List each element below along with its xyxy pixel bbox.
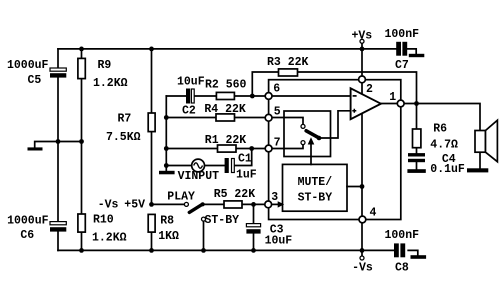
wire R3 feedback branch: [252, 72, 416, 104]
wire C6 column: [57, 142, 59, 251]
junction +5V node: [149, 202, 154, 207]
internal switch contact upper: [301, 124, 305, 128]
svg-text:1000uF: 1000uF: [7, 215, 49, 228]
pin 2: [359, 76, 366, 83]
resistor R3 body: [279, 69, 298, 76]
wire speaker to ground stub: [479, 152, 481, 168]
junction ST-BY rail: [201, 248, 206, 253]
wire C4 to ground stub: [416, 162, 418, 169]
wire +Vs terminal stub: [361, 43, 363, 49]
wire pin 7 to switch contact: [272, 145, 303, 149]
junction +Vs rail: [360, 47, 365, 52]
svg-text:10uF: 10uF: [265, 235, 293, 248]
terminal -Vs: [360, 256, 364, 260]
svg-text:R9: R9: [98, 59, 112, 72]
ground speaker: [467, 168, 488, 172]
op-amp non-inverting mark: [352, 109, 356, 113]
svg-text:1000uF: 1000uF: [7, 59, 49, 72]
svg-text:6: 6: [273, 83, 280, 96]
junction C5 ground: [56, 139, 61, 144]
wire R7 column: [151, 49, 153, 205]
resistor R1 body: [218, 145, 237, 152]
svg-text:5: 5: [274, 106, 281, 119]
wire ST-BY contact to rail: [203, 221, 205, 250]
wire input ground bus: [165, 96, 167, 171]
svg-text:R8: R8: [160, 215, 174, 228]
wire op-amp output to pin 1: [381, 103, 397, 105]
resistor R4 body: [216, 114, 235, 121]
pin 4: [359, 216, 366, 223]
svg-text:1KΩ: 1KΩ: [158, 230, 179, 243]
wire R4 row: [166, 117, 265, 119]
switch PLAY/ST-BY lever: [189, 204, 202, 212]
pin 6: [265, 93, 272, 100]
resistor R5 body: [224, 201, 242, 208]
junction R8 rail: [149, 248, 154, 253]
svg-text:1.2KΩ: 1.2KΩ: [92, 232, 127, 245]
wire C3 branch: [253, 204, 255, 250]
pin 3: [265, 201, 272, 208]
svg-text:C7: C7: [395, 59, 409, 72]
svg-text:C1: C1: [238, 153, 252, 166]
wire pin 4 to rail and -Vs stub: [361, 223, 363, 256]
junction R9 ground: [79, 139, 84, 144]
internal switch pivot dot: [317, 136, 322, 141]
wire mute control arrow stem: [310, 143, 312, 165]
junction R2 pin6 node: [250, 94, 255, 99]
capacitor C5 plates: [50, 68, 66, 78]
wire pin 3 arrow lead: [272, 203, 279, 205]
wire R6 branch: [416, 104, 418, 154]
svg-text:VINPUT: VINPUT: [178, 170, 220, 183]
junction pin4 rail: [360, 248, 365, 253]
svg-text:1: 1: [389, 91, 396, 104]
svg-text:ST-BY: ST-BY: [205, 214, 240, 227]
wire MUTE block to supply line: [347, 186, 362, 188]
svg-text:100nF: 100nF: [385, 28, 420, 41]
junction output feedback: [414, 101, 419, 106]
wire C1 branch: [235, 149, 251, 166]
svg-text:-Vs: -Vs: [98, 199, 119, 212]
ground C4: [407, 169, 425, 173]
svg-text:R10: R10: [93, 214, 114, 227]
capacitor C3 plates: [246, 224, 260, 234]
wire C5 column: [57, 49, 59, 142]
wire pin 2 to pin 4 internal supply: [361, 83, 363, 216]
resistor R2 body: [216, 92, 234, 99]
svg-text:1.2KΩ: 1.2KΩ: [93, 77, 128, 90]
svg-text:100nF: 100nF: [385, 229, 420, 242]
ground C7: [409, 54, 425, 57]
wire C7 to ground: [407, 49, 416, 54]
wire switch lever to R5: [203, 203, 225, 205]
capacitor C6 plates: [50, 222, 66, 232]
svg-text:+5V: +5V: [124, 199, 145, 212]
wire bottom -Vs rail: [58, 249, 394, 251]
svg-text:7.5KΩ: 7.5KΩ: [106, 131, 141, 144]
resistor R6 body: [413, 129, 421, 148]
wire C2 row: [166, 95, 265, 97]
svg-text:1uF: 1uF: [236, 169, 257, 182]
pin 5: [265, 114, 272, 121]
capacitor C8 plates: [394, 243, 405, 257]
junction R9 top: [79, 47, 84, 52]
op-amp U1 triangle: [351, 88, 381, 119]
op-amp inverting mark: [353, 95, 357, 97]
svg-text:C2: C2: [182, 105, 196, 118]
svg-text:C6: C6: [20, 229, 34, 242]
wire +5V node to PLAY contact: [152, 203, 185, 205]
wire R5 to pin 3: [242, 203, 265, 205]
switch ST-BY contact: [202, 217, 206, 221]
signal source VINPUT: [192, 159, 205, 172]
switch lever pivot dot: [201, 202, 205, 206]
IC block outline: [269, 80, 401, 220]
ground mid-left: [28, 147, 43, 150]
wire switch common to op-amp + input: [319, 111, 351, 138]
junction R1 pin7 node: [249, 146, 254, 151]
internal switch box: [284, 111, 331, 157]
svg-text:ST-BY: ST-BY: [298, 191, 333, 204]
wire R1 row: [166, 148, 265, 150]
svg-text:-Vs: -Vs: [352, 262, 373, 275]
wire R9 column: [81, 49, 83, 142]
ground VINPUT: [159, 171, 175, 175]
junction mute supply: [360, 184, 365, 189]
svg-text:R3 22K: R3 22K: [267, 56, 309, 69]
svg-text:R6: R6: [433, 123, 447, 136]
svg-text:MUTE/: MUTE/: [298, 176, 333, 189]
svg-text:4: 4: [370, 207, 377, 220]
svg-text:C5: C5: [28, 74, 42, 87]
svg-text:3: 3: [271, 191, 278, 204]
internal switch contact lower: [301, 141, 305, 145]
switch PLAY contact: [184, 202, 188, 206]
junction R5 C3 node: [251, 202, 256, 207]
resistor R9 body: [78, 58, 85, 78]
MUTE/ST-BY block: [283, 164, 348, 211]
svg-text:R5 22K: R5 22K: [214, 188, 256, 201]
terminal +Vs: [360, 39, 364, 43]
capacitor C1 plates: [225, 158, 235, 173]
capacitor C2 plates: [186, 89, 194, 104]
svg-text:PLAY: PLAY: [167, 191, 195, 204]
svg-text:4.7Ω: 4.7Ω: [430, 139, 458, 152]
wire C8 to ground: [408, 250, 418, 255]
junction bus R1: [164, 146, 169, 151]
pin 1: [397, 100, 404, 107]
junction R10 rail: [79, 248, 84, 253]
wire pin 1 output line: [404, 104, 480, 131]
wire mid ground link: [35, 142, 82, 148]
wire pin 5 to switch contact: [272, 118, 303, 125]
svg-text:10uF: 10uF: [177, 76, 205, 89]
svg-text:R4 22K: R4 22K: [204, 103, 246, 116]
wire +Vs rail to pin 2: [361, 49, 363, 76]
svg-text:0.1uF: 0.1uF: [430, 163, 465, 176]
svg-text:R7: R7: [118, 113, 132, 126]
wire R8 column: [151, 232, 153, 250]
pin 7: [265, 145, 272, 152]
resistor R7 body: [148, 113, 155, 132]
resistor R10 body: [78, 214, 85, 232]
svg-text:7: 7: [274, 137, 281, 150]
pin 3 arrowhead: [278, 201, 285, 207]
capacitor C7 plates: [396, 42, 407, 56]
ground C8: [411, 255, 427, 259]
junction bus R4: [164, 115, 169, 120]
resistor R8 body: [148, 214, 155, 232]
svg-text:+Vs: +Vs: [352, 29, 373, 42]
svg-text:C8: C8: [395, 262, 409, 275]
capacitor C4 plates: [408, 153, 425, 162]
junction bus VINPUT: [164, 163, 169, 168]
wire top +Vs rail: [58, 48, 396, 50]
svg-text:R1 22K: R1 22K: [205, 134, 247, 147]
svg-text:2: 2: [366, 83, 373, 96]
svg-text:R2 560: R2 560: [205, 78, 247, 91]
wire pin 6 to op-amp inverting input: [272, 95, 350, 97]
junction C3 rail: [251, 248, 256, 253]
junction R7 top: [149, 47, 154, 52]
wire VINPUT row: [166, 165, 224, 167]
mute control arrowhead: [308, 137, 315, 144]
wire R10 column: [81, 142, 83, 251]
speaker SPK: [475, 120, 497, 162]
internal switch lever: [306, 131, 319, 138]
